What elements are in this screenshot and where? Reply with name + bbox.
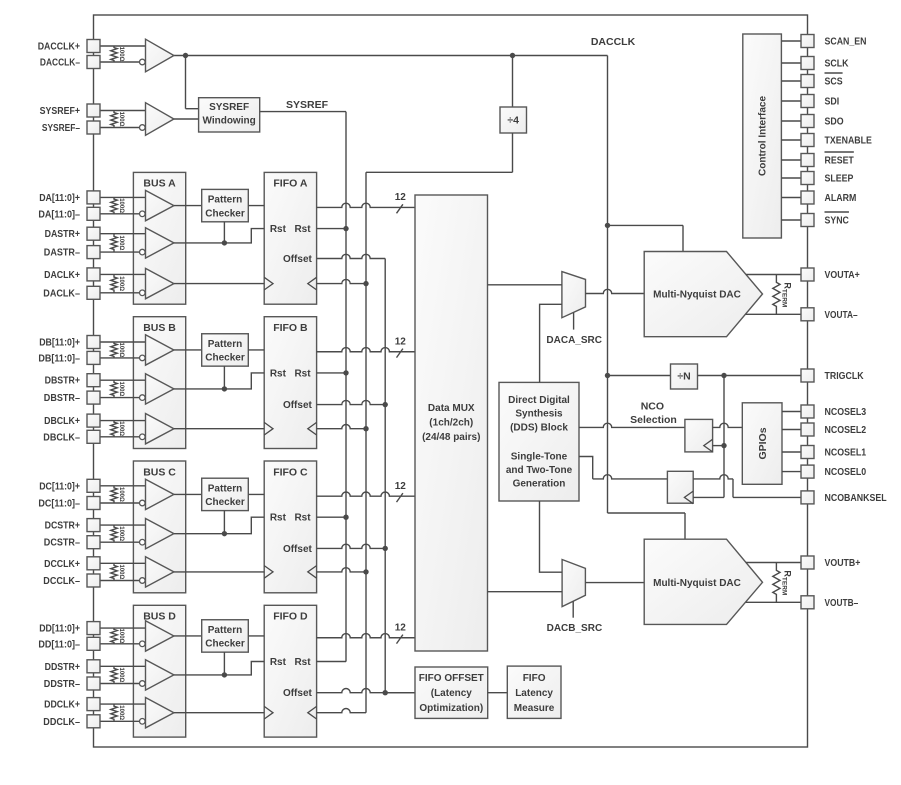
- svg-text:Rst: Rst: [294, 657, 311, 668]
- svg-text:DACLK–: DACLK–: [43, 288, 80, 299]
- svg-text:12: 12: [395, 192, 407, 203]
- svg-text:Multi-Nyquist DAC: Multi-Nyquist DAC: [653, 290, 741, 301]
- svg-text:DACCLK+: DACCLK+: [38, 42, 80, 53]
- svg-text:DASTR–: DASTR–: [44, 248, 81, 259]
- svg-text:Rst: Rst: [294, 224, 311, 235]
- svg-text:100Ω: 100Ω: [118, 421, 124, 436]
- svg-text:NCOSEL2: NCOSEL2: [825, 425, 867, 436]
- svg-text:BUS B: BUS B: [143, 322, 176, 334]
- svg-text:Checker: Checker: [205, 639, 245, 650]
- svg-text:12: 12: [395, 623, 407, 634]
- svg-text:ALARM: ALARM: [825, 193, 857, 204]
- svg-text:DBCLK+: DBCLK+: [44, 416, 80, 427]
- svg-text:NCOSEL3: NCOSEL3: [825, 407, 867, 418]
- svg-text:FIFO A: FIFO A: [273, 178, 307, 190]
- svg-text:(DDS) Block: (DDS) Block: [510, 422, 568, 433]
- svg-text:DACB_SRC: DACB_SRC: [547, 623, 603, 634]
- svg-text:100Ω: 100Ω: [118, 276, 124, 291]
- svg-text:FIFO C: FIFO C: [273, 466, 308, 478]
- svg-text:100Ω: 100Ω: [118, 343, 124, 358]
- svg-text:100Ω: 100Ω: [118, 381, 124, 396]
- svg-text:Pattern: Pattern: [208, 195, 242, 206]
- svg-text:VOUTB+: VOUTB+: [825, 558, 861, 569]
- svg-text:FIFO: FIFO: [523, 673, 546, 684]
- svg-text:BUS C: BUS C: [143, 466, 176, 478]
- svg-text:DA[11:0]–: DA[11:0]–: [38, 209, 80, 220]
- svg-text:DCSTR–: DCSTR–: [44, 538, 81, 549]
- svg-text:100Ω: 100Ω: [118, 47, 124, 62]
- svg-text:100Ω: 100Ω: [118, 705, 124, 720]
- svg-text:100Ω: 100Ω: [118, 487, 124, 502]
- svg-text:Optimization): Optimization): [419, 703, 483, 714]
- svg-text:FIFO OFFSET: FIFO OFFSET: [419, 673, 484, 684]
- svg-text:NCOSEL0: NCOSEL0: [825, 467, 867, 478]
- svg-text:DDCLK–: DDCLK–: [43, 717, 80, 728]
- svg-text:(1ch/2ch): (1ch/2ch): [429, 418, 473, 429]
- svg-text:DACCLK: DACCLK: [591, 36, 636, 48]
- svg-text:Synthesis: Synthesis: [515, 409, 563, 420]
- svg-text:DA[11:0]+: DA[11:0]+: [39, 193, 80, 204]
- svg-text:DDSTR+: DDSTR+: [45, 662, 81, 673]
- svg-text:SDO: SDO: [825, 117, 844, 128]
- svg-text:Generation: Generation: [513, 479, 566, 490]
- svg-text:Rst: Rst: [270, 657, 287, 668]
- svg-text:SYSREF: SYSREF: [286, 99, 329, 111]
- svg-text:SYNC: SYNC: [825, 216, 849, 227]
- svg-text:VOUTA+: VOUTA+: [825, 270, 860, 281]
- svg-text:SYSREF: SYSREF: [209, 102, 249, 113]
- svg-text:DD[11:0]+: DD[11:0]+: [39, 624, 80, 635]
- svg-text:GPIOs: GPIOs: [757, 427, 769, 459]
- svg-text:RESET: RESET: [825, 156, 854, 167]
- svg-text:DACCLK–: DACCLK–: [40, 58, 80, 69]
- svg-text:NCO: NCO: [641, 401, 664, 413]
- svg-text:Rst: Rst: [270, 224, 287, 235]
- svg-text:÷4: ÷4: [507, 115, 519, 127]
- svg-text:BUS D: BUS D: [143, 611, 176, 623]
- svg-text:Single-Tone: Single-Tone: [511, 452, 568, 463]
- svg-text:DDSTR–: DDSTR–: [44, 679, 81, 690]
- svg-text:NCOBANKSEL: NCOBANKSEL: [825, 493, 887, 504]
- svg-text:Measure: Measure: [514, 703, 555, 714]
- svg-text:Direct Digital: Direct Digital: [508, 395, 570, 406]
- svg-text:Windowing: Windowing: [202, 115, 255, 126]
- svg-text:Latency: Latency: [515, 688, 553, 699]
- svg-text:12: 12: [395, 481, 407, 492]
- svg-text:100Ω: 100Ω: [118, 235, 124, 250]
- svg-text:DC[11:0]+: DC[11:0]+: [39, 481, 80, 492]
- svg-text:DBSTR+: DBSTR+: [45, 376, 81, 387]
- svg-text:DC[11:0]–: DC[11:0]–: [38, 499, 80, 510]
- svg-text:and Two-Tone: and Two-Tone: [506, 465, 573, 476]
- svg-text:Offset: Offset: [283, 688, 313, 699]
- svg-text:Offset: Offset: [283, 544, 313, 555]
- svg-text:SYSREF–: SYSREF–: [42, 123, 80, 134]
- svg-text:DB[11:0]–: DB[11:0]–: [38, 353, 80, 364]
- svg-text:SDI: SDI: [825, 97, 840, 108]
- svg-text:DBCLK–: DBCLK–: [43, 432, 80, 443]
- svg-text:Checker: Checker: [205, 497, 245, 508]
- svg-text:Rst: Rst: [270, 368, 287, 379]
- svg-text:Pattern: Pattern: [208, 339, 242, 350]
- svg-text:DCCLK–: DCCLK–: [43, 576, 80, 587]
- svg-text:Offset: Offset: [283, 400, 313, 411]
- svg-text:Rst: Rst: [294, 513, 311, 524]
- svg-text:Rst: Rst: [294, 368, 311, 379]
- svg-text:DACA_SRC: DACA_SRC: [546, 335, 602, 346]
- svg-text:SLEEP: SLEEP: [825, 174, 854, 185]
- svg-text:100Ω: 100Ω: [118, 667, 124, 682]
- svg-text:DCSTR+: DCSTR+: [45, 521, 81, 532]
- svg-text:Selection: Selection: [630, 414, 677, 426]
- svg-text:Checker: Checker: [205, 353, 245, 364]
- svg-text:Checker: Checker: [205, 208, 245, 219]
- svg-text:(24/48 pairs): (24/48 pairs): [422, 432, 480, 443]
- svg-text:SYSREF+: SYSREF+: [40, 106, 81, 117]
- svg-text:VOUTB–: VOUTB–: [825, 598, 859, 609]
- svg-text:SCLK: SCLK: [825, 59, 850, 70]
- svg-text:SCS: SCS: [825, 77, 843, 88]
- svg-text:Pattern: Pattern: [208, 484, 242, 495]
- svg-text:DACLK+: DACLK+: [44, 270, 80, 281]
- svg-text:100Ω: 100Ω: [118, 198, 124, 213]
- svg-text:DASTR+: DASTR+: [45, 229, 81, 240]
- svg-text:100Ω: 100Ω: [118, 564, 124, 579]
- svg-text:DDCLK+: DDCLK+: [44, 700, 80, 711]
- svg-text:FIFO D: FIFO D: [273, 611, 308, 623]
- svg-text:(Latency: (Latency: [431, 688, 473, 699]
- svg-text:NCOSEL1: NCOSEL1: [825, 448, 867, 459]
- svg-text:Rst: Rst: [270, 513, 287, 524]
- svg-text:DCCLK+: DCCLK+: [44, 559, 80, 570]
- svg-text:Pattern: Pattern: [208, 625, 242, 636]
- svg-text:TXENABLE: TXENABLE: [825, 136, 873, 147]
- svg-text:FIFO B: FIFO B: [273, 322, 308, 334]
- svg-text:BUS A: BUS A: [143, 178, 176, 190]
- svg-text:Offset: Offset: [283, 254, 313, 265]
- svg-text:÷N: ÷N: [677, 371, 690, 383]
- svg-text:DBSTR–: DBSTR–: [44, 393, 81, 404]
- svg-text:DD[11:0]–: DD[11:0]–: [38, 639, 80, 650]
- svg-text:Control Interface: Control Interface: [758, 96, 769, 176]
- svg-text:100Ω: 100Ω: [118, 112, 124, 127]
- svg-text:TRIGCLK: TRIGCLK: [825, 371, 865, 382]
- svg-text:SCAN_EN: SCAN_EN: [825, 37, 867, 48]
- svg-text:Data MUX: Data MUX: [428, 403, 475, 414]
- svg-text:100Ω: 100Ω: [118, 629, 124, 644]
- svg-text:Multi-Nyquist DAC: Multi-Nyquist DAC: [653, 578, 741, 589]
- svg-text:VOUTA–: VOUTA–: [825, 310, 858, 321]
- svg-text:DB[11:0]+: DB[11:0]+: [39, 338, 80, 349]
- svg-text:12: 12: [395, 337, 407, 348]
- svg-text:100Ω: 100Ω: [118, 526, 124, 541]
